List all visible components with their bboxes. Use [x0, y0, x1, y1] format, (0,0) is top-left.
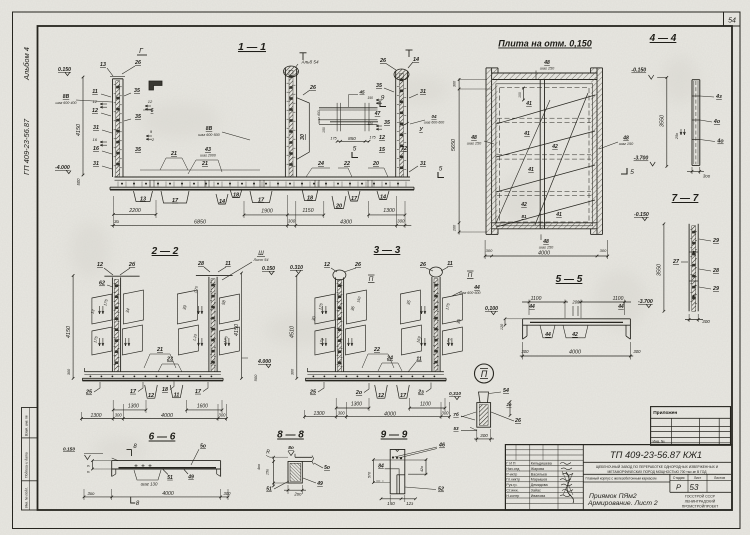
svg-text:0.310: 0.310 — [290, 265, 303, 271]
svg-text:35: 35 — [134, 88, 141, 94]
svg-text:1300: 1300 — [90, 413, 101, 419]
svg-text:6850: 6850 — [194, 219, 206, 225]
svg-text:175: 175 — [369, 136, 376, 140]
dim row1 3-3 — [336, 407, 369, 409]
section marker 9 — [380, 101, 386, 107]
svg-text:48: 48 — [543, 60, 550, 66]
svg-text:300: 300 — [288, 219, 296, 224]
left dim 570 of 9-9 — [372, 460, 374, 483]
callout flags under slab 1-1 — [134, 191, 153, 202]
svg-text:1150: 1150 — [302, 208, 313, 214]
svg-text:25о: 25о — [675, 133, 679, 140]
svg-text:4150: 4150 — [234, 323, 240, 336]
svg-text:18: 18 — [162, 387, 168, 393]
plus marks of 6-6 — [134, 465, 137, 467]
svg-text:31: 31 — [420, 161, 426, 167]
svg-text:42о: 42о — [420, 466, 424, 472]
anchor symbol above right wall — [408, 50, 410, 57]
stamp mark — [566, 472, 574, 503]
svg-text:175: 175 — [330, 137, 337, 141]
right wall — [208, 277, 210, 372]
svg-text:42: 42 — [571, 332, 578, 338]
svg-text:43: 43 — [204, 147, 211, 153]
anchor symbol above middle wall — [302, 53, 304, 60]
plan dashed strip lines — [497, 117, 591, 119]
slab rebar line 5-5 — [530, 321, 623, 323]
svg-text:Г И П: Г И П — [506, 462, 516, 466]
svg-text:Приямок ПЯм2: Приямок ПЯм2 — [589, 493, 637, 500]
flange of 8-8 — [295, 456, 312, 458]
svg-text:0.150: 0.150 — [63, 447, 75, 453]
middle wall top bulge — [284, 66, 299, 77]
title block frame — [505, 445, 732, 510]
svg-text:54: 54 — [728, 18, 736, 25]
plan corner stubs — [486, 67, 498, 69]
slab dots — [90, 376, 92, 378]
svg-text:шаг 600·600: шаг 600·600 — [424, 121, 444, 125]
svg-text:3 — 3: 3 — 3 — [374, 245, 401, 256]
svg-text:14: 14 — [380, 194, 386, 200]
svg-text:8В: 8В — [206, 126, 213, 132]
svg-text:5: 5 — [353, 146, 357, 153]
svg-text:300: 300 — [480, 433, 488, 438]
svg-text:17: 17 — [400, 393, 407, 399]
bottom slab section 1-1 — [115, 176, 411, 178]
svg-text:Плита на отм. 0,150: Плита на отм. 0,150 — [498, 39, 592, 49]
svg-text:52: 52 — [438, 487, 444, 493]
left dim 4150 of 2-2 — [72, 276, 74, 379]
left wall — [111, 277, 113, 371]
svg-text:17: 17 — [130, 389, 137, 395]
dim extensions 3-3 — [304, 410, 306, 419]
arrows panels 2-2 — [99, 306, 101, 314]
svg-text:7 — 7: 7 — 7 — [672, 193, 699, 204]
slot of 9-9 — [396, 475, 398, 494]
svg-text:15: 15 — [379, 147, 386, 153]
plan section marker 5 right — [621, 168, 627, 174]
svg-text:12з: 12з — [406, 501, 414, 506]
svg-text:3550: 3550 — [660, 114, 666, 127]
svg-text:26: 26 — [514, 418, 521, 424]
svg-text:51: 51 — [167, 475, 173, 481]
svg-text:46: 46 — [438, 443, 445, 449]
wall top caps — [104, 275, 139, 277]
svg-text:4 — 4: 4 — 4 — [649, 33, 677, 44]
svg-text:ТП 409-23-56.87 КЖ1: ТП 409-23-56.87 КЖ1 — [610, 450, 702, 460]
svg-text:570: 570 — [368, 471, 372, 478]
svg-text:26: 26 — [354, 262, 361, 268]
svg-text:12: 12 — [148, 99, 153, 104]
dim row2 3-3 — [305, 416, 450, 418]
svg-text:48: 48 — [470, 135, 477, 141]
svg-text:11: 11 — [416, 357, 422, 363]
svg-text:35: 35 — [135, 147, 142, 153]
svg-text:Зайас: Зайас — [531, 489, 541, 493]
svg-text:1300: 1300 — [313, 411, 324, 417]
svg-text:0,100: 0,100 — [485, 306, 498, 312]
svg-text:29: 29 — [712, 238, 719, 244]
svg-text:9: 9 — [87, 465, 91, 467]
slab support ticks — [149, 180, 151, 187]
svg-text:шаг 150: шаг 150 — [619, 142, 634, 146]
svg-text:1100: 1100 — [613, 296, 624, 302]
svg-text:35: 35 — [376, 83, 383, 89]
svg-text:1900: 1900 — [261, 208, 273, 214]
svg-text:22: 22 — [343, 161, 350, 167]
svg-text:1300: 1300 — [128, 403, 139, 409]
svg-text:-3.700: -3.700 — [634, 156, 649, 162]
svg-text:8 — 8: 8 — 8 — [277, 430, 304, 441]
plan left edge — [485, 68, 487, 235]
svg-text:МЕТАМОРФИЧЕСКИХ ПОРОД МОЩНОСТЬ: МЕТАМОРФИЧЕСКИХ ПОРОД МОЩНОСТЬЮ 700 тыс.… — [608, 470, 708, 474]
svg-text:2200: 2200 — [128, 208, 141, 214]
svg-text:8о: 8о — [288, 445, 294, 451]
svg-text:Лист: Лист — [694, 476, 702, 480]
small arrows mid — [145, 105, 151, 107]
svg-text:6 — 6: 6 — 6 — [149, 432, 176, 443]
svg-text:300: 300 — [397, 219, 405, 224]
svg-text:5о: 5о — [200, 444, 206, 450]
svg-text:4000: 4000 — [161, 413, 173, 419]
svg-text:3оо: 3оо — [703, 174, 711, 179]
svg-text:Р: Р — [676, 483, 681, 492]
svg-text:12: 12 — [93, 99, 98, 104]
svg-text:9: 9 — [381, 95, 385, 102]
svg-text:Инв. №: Инв. № — [653, 439, 665, 443]
svg-text:300: 300 — [291, 368, 295, 375]
interior panel right bay — [297, 98, 310, 160]
svg-text:150: 150 — [387, 501, 395, 506]
svg-text:Подпись и дата: Подпись и дата — [25, 452, 29, 478]
svg-text:500: 500 — [253, 374, 258, 381]
svg-text:Армирование. Лист 2: Армирование. Лист 2 — [587, 500, 658, 507]
svg-text:44: 44 — [617, 304, 624, 310]
svg-text:49: 49 — [187, 475, 194, 481]
arrows panels 3-3 — [322, 306, 324, 314]
svg-text:Альбом 4: Альбом 4 — [22, 47, 31, 81]
svg-text:24: 24 — [317, 161, 324, 167]
svg-text:120: 120 — [500, 323, 504, 330]
svg-text:18: 18 — [233, 192, 240, 198]
svg-text:25: 25 — [85, 390, 93, 396]
svg-text:Приложен: Приложен — [653, 410, 677, 416]
svg-text:Васильев: Васильев — [531, 472, 547, 476]
svg-text:ПРОМСТРОЙПРОЕКТ: ПРОМСТРОЙПРОЕКТ — [682, 505, 719, 509]
svg-text:12: 12 — [379, 135, 385, 141]
svg-text:150: 150 — [367, 96, 373, 100]
svg-text:4000: 4000 — [384, 411, 396, 417]
svg-text:22: 22 — [373, 347, 380, 353]
svg-text:1300: 1300 — [383, 208, 395, 214]
svg-text:23: 23 — [166, 357, 173, 363]
svg-text:16: 16 — [93, 146, 99, 152]
svg-text:шаг 150: шаг 150 — [540, 67, 555, 71]
svg-text:П: П — [468, 272, 473, 279]
detail II bottom dim 300 — [474, 438, 494, 440]
svg-text:1100: 1100 — [531, 296, 542, 302]
svg-text:26: 26 — [379, 58, 387, 64]
svg-text:1600: 1600 — [197, 403, 208, 409]
svg-text:2оо: 2оо — [293, 492, 302, 497]
svg-text:42: 42 — [551, 144, 558, 150]
svg-text:04: 04 — [431, 114, 437, 119]
body of 9-9 — [390, 450, 405, 494]
bottom slab — [84, 371, 221, 373]
wall top bulges — [333, 270, 346, 280]
svg-text:12: 12 — [324, 262, 330, 268]
svg-text:300: 300 — [115, 412, 123, 417]
svg-text:8В: 8В — [63, 94, 70, 100]
svg-text:4300: 4300 — [340, 219, 352, 225]
svg-text:ГП 409-23-56.87: ГП 409-23-56.87 — [22, 118, 31, 175]
slab of 5-5 — [523, 318, 631, 320]
svg-text:шаг 150: шаг 150 — [539, 246, 554, 250]
detail II column — [479, 392, 489, 403]
svg-text:11: 11 — [92, 89, 98, 95]
svg-text:16: 16 — [93, 137, 98, 142]
shag 130 bracket of 6-6 — [134, 470, 161, 480]
svg-text:11: 11 — [174, 393, 180, 399]
signature table — [505, 449, 583, 451]
dim row1 2-2 — [113, 409, 146, 411]
svg-text:29: 29 — [712, 286, 719, 292]
wall left of section 1-1 — [112, 79, 114, 177]
svg-text:П: П — [369, 276, 374, 283]
svg-text:4000: 4000 — [569, 350, 581, 356]
svg-text:28: 28 — [197, 261, 204, 267]
dots of 9-9 — [392, 456, 394, 458]
bottom dim 200 of 8-8 — [284, 489, 306, 491]
svg-text:П: П — [481, 369, 488, 379]
svg-text:100: 100 — [518, 92, 522, 98]
dim 3550 of 4-4 — [666, 77, 668, 166]
svg-text:-0.150: -0.150 — [631, 68, 646, 74]
svg-text:300: 300 — [633, 349, 641, 354]
svg-text:6: 6 — [151, 108, 154, 114]
svg-text:200: 200 — [571, 300, 580, 305]
svg-text:3оо: 3оо — [88, 491, 96, 496]
svg-text:300: 300 — [338, 411, 346, 416]
section marker 5 right of 1-1 — [438, 172, 444, 178]
svg-text:31: 31 — [93, 161, 99, 167]
svg-text:Главный корпус с железобетонны: Главный корпус с железобетонным каркасом — [586, 477, 658, 481]
rebar panels — [92, 294, 112, 324]
svg-text:Ст.инж.: Ст.инж. — [506, 489, 518, 493]
bottom-left margin table — [22, 408, 38, 511]
svg-text:12: 12 — [97, 262, 103, 268]
wall left top cap — [113, 78, 124, 80]
bottom dim of 5-5 — [520, 355, 633, 357]
svg-text:17: 17 — [351, 196, 358, 202]
plan inner dashed rect — [496, 84, 593, 226]
svg-text:12: 12 — [378, 393, 384, 399]
svg-text:300: 300 — [442, 411, 450, 416]
svg-text:47: 47 — [374, 111, 381, 117]
svg-text:Демидова: Демидова — [531, 483, 548, 487]
svg-text:5о: 5о — [324, 465, 330, 471]
detail II circle — [475, 364, 494, 383]
svg-text:44: 44 — [544, 332, 551, 338]
svg-text:Листов: Листов — [714, 476, 725, 480]
stage list cells — [669, 474, 671, 492]
svg-text:4з: 4з — [715, 94, 722, 100]
svg-text:4150: 4150 — [76, 123, 82, 136]
svg-text:44: 44 — [528, 304, 535, 310]
svg-text:28: 28 — [712, 268, 719, 274]
svg-text:4о: 4о — [716, 139, 724, 145]
wall right of section 1-1 — [395, 72, 397, 178]
dim extensions 2-2 — [81, 412, 83, 421]
svg-text:4.000: 4.000 — [257, 359, 271, 365]
svg-text:шаг 150: шаг 150 — [467, 142, 482, 146]
svg-text:У: У — [419, 127, 423, 133]
svg-text:4о: 4о — [713, 119, 721, 125]
svg-text:Нач.отд: Нач.отд — [506, 467, 520, 471]
svg-text:11: 11 — [225, 261, 231, 267]
svg-text:300: 300 — [224, 491, 232, 496]
svg-text:2з: 2з — [417, 390, 424, 396]
bottom dim 300 of 4-4 — [691, 167, 693, 174]
body of 8-8 — [288, 462, 302, 484]
svg-text:2б: 2б — [128, 261, 136, 268]
svg-text:шаг 400: шаг 400 — [317, 110, 321, 123]
svg-text:53: 53 — [453, 426, 459, 431]
svg-text:12: 12 — [148, 393, 154, 399]
dim row 1 under section 1-1 — [114, 213, 157, 215]
svg-text:Рук.гр.: Рук.гр. — [506, 483, 517, 487]
svg-text:14: 14 — [219, 199, 225, 205]
svg-text:17: 17 — [172, 198, 179, 204]
slab dots — [313, 376, 315, 378]
svg-text:14: 14 — [413, 57, 419, 63]
svg-text:шаг 600·400: шаг 600·400 — [56, 101, 77, 105]
wall middle of section 1-1 — [284, 68, 286, 177]
rebar panels — [315, 294, 335, 324]
svg-text:48: 48 — [622, 136, 629, 142]
svg-text:45: 45 — [358, 90, 365, 95]
svg-text:24: 24 — [386, 356, 393, 362]
svg-text:41: 41 — [527, 167, 534, 173]
svg-text:0,310: 0,310 — [449, 391, 461, 397]
svg-text:2 — 2: 2 — 2 — [151, 246, 179, 257]
svg-text:150: 150 — [322, 127, 326, 133]
svg-text:Кильдишева: Кильдишева — [531, 462, 552, 466]
svg-text:26: 26 — [134, 60, 141, 66]
plan diagonal rebar lines — [496, 95, 595, 124]
left wall — [334, 277, 336, 371]
svg-text:31: 31 — [93, 125, 99, 131]
left dim line 4150 — [82, 77, 84, 175]
svg-text:13: 13 — [140, 196, 146, 202]
svg-text:1 — 1: 1 — 1 — [238, 41, 266, 53]
slab rebar dots — [121, 183, 123, 185]
right wall — [431, 277, 433, 372]
svg-text:72: 72 — [401, 146, 407, 152]
svg-text:51: 51 — [266, 487, 272, 493]
svg-text:35: 35 — [135, 114, 142, 120]
svg-text:Альб 54: Альб 54 — [300, 60, 318, 65]
svg-text:54: 54 — [503, 388, 509, 394]
svg-text:Марышев: Марышев — [531, 478, 547, 482]
svg-text:31: 31 — [420, 89, 426, 95]
svg-text:120: 120 — [367, 122, 373, 126]
svg-text:Лист 54: Лист 54 — [252, 258, 268, 262]
svg-text:Гл.киктр: Гл.киктр — [506, 478, 520, 482]
svg-text:-3.700: -3.700 — [638, 299, 653, 305]
svg-text:27: 27 — [672, 259, 680, 265]
slab tick marks — [117, 182, 119, 187]
svg-text:35: 35 — [384, 120, 391, 126]
svg-text:48: 48 — [542, 239, 549, 245]
svg-text:12: 12 — [92, 108, 98, 114]
dim row2 2-2 — [82, 418, 227, 420]
right dim 420 of 9-9 — [425, 460, 427, 475]
svg-text:R: R — [266, 450, 270, 456]
svg-text:300: 300 — [702, 319, 710, 324]
dim row 2 under section 1-1 — [111, 224, 412, 226]
svg-text:300: 300 — [453, 80, 457, 87]
bottom dim of 6-6 — [84, 496, 228, 498]
callouts 44 42 of 5-5 — [540, 325, 555, 338]
wall of section 7-7 — [688, 224, 690, 311]
bottom dim of 9-9 — [381, 498, 416, 500]
right dim 4150 of 2-2 — [241, 273, 243, 379]
svg-text:18: 18 — [307, 195, 314, 201]
svg-text:850: 850 — [348, 136, 356, 141]
svg-text:300: 300 — [521, 349, 529, 354]
arrow pairs right wall — [376, 99, 382, 101]
dim extension lines 1-1 — [113, 196, 115, 228]
plan left dim line 5650 — [458, 79, 460, 235]
svg-text:Ш: Ш — [258, 251, 264, 257]
svg-text:ЛЕНИНГРАДСКИЙ: ЛЕНИНГРАДСКИЙ — [685, 500, 716, 504]
bracket 21 row — [140, 169, 260, 171]
svg-text:5 — 5: 5 — 5 — [556, 274, 583, 285]
svg-text:Иванова: Иванова — [531, 494, 545, 498]
svg-text:-4.000: -4.000 — [55, 165, 70, 171]
tie line of 9-9 — [373, 459, 427, 461]
svg-text:20: 20 — [372, 161, 379, 167]
svg-text:300: 300 — [486, 248, 493, 253]
svg-text:ГОСCТРОЙ СССР: ГОСCТРОЙ СССР — [685, 495, 716, 499]
svg-text:Р-иктр: Р-иктр — [506, 472, 517, 476]
svg-text:5: 5 — [439, 166, 443, 173]
svg-text:1100: 1100 — [420, 401, 431, 407]
svg-text:шаг 2000: шаг 2000 — [200, 154, 216, 158]
svg-text:Инв. № подл.: Инв. № подл. — [25, 487, 29, 508]
svg-text:7б: 7б — [453, 411, 459, 417]
section marker 5 inner — [352, 152, 358, 158]
svg-text:4000: 4000 — [538, 251, 550, 257]
svg-text:-0.150: -0.150 — [634, 212, 649, 218]
svg-text:шаг 600·600: шаг 600·600 — [460, 291, 481, 295]
dim 850 with 175 — [337, 140, 369, 142]
svg-text:20: 20 — [335, 203, 342, 209]
wall division marks 4-4 — [692, 95, 700, 97]
svg-text:21: 21 — [156, 347, 163, 353]
svg-text:15о: 15о — [266, 469, 270, 475]
svg-text:0.150: 0.150 — [58, 67, 71, 73]
svg-text:шаг 600·500: шаг 600·500 — [198, 133, 220, 137]
svg-text:Жарова: Жарова — [531, 467, 544, 471]
wall of section 4-4 — [691, 80, 693, 166]
top dims 1100 200 1100 of 5-5 — [528, 300, 530, 316]
svg-text:81: 81 — [522, 214, 527, 219]
bottom slab — [307, 371, 444, 373]
svg-text:2о: 2о — [355, 390, 363, 396]
plan top inner dim 100 — [523, 88, 525, 100]
svg-text:26: 26 — [419, 262, 426, 268]
